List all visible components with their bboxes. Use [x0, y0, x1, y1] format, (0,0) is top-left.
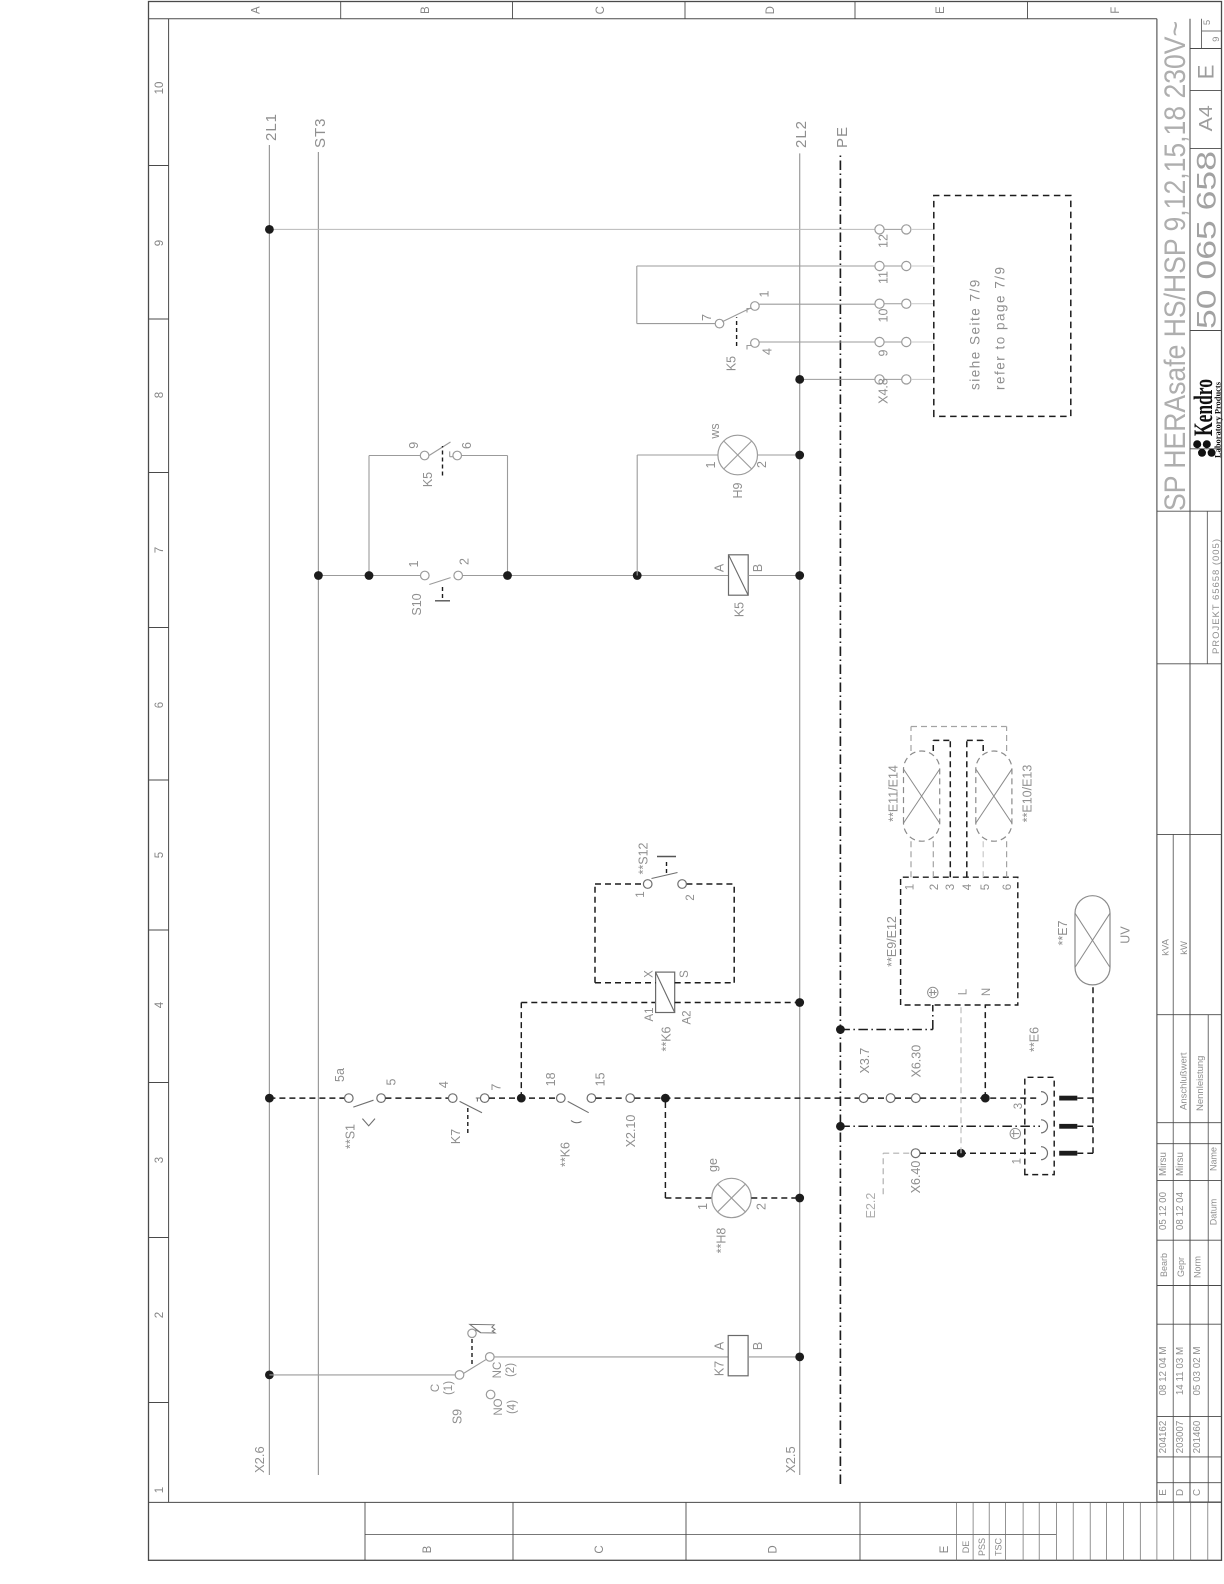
svg-text:H9: H9	[731, 482, 745, 498]
svg-text:DE: DE	[961, 1541, 971, 1554]
svg-text:50 065 658: 50 065 658	[1192, 151, 1222, 329]
svg-text:A2: A2	[682, 1010, 694, 1024]
svg-text:C: C	[595, 6, 607, 14]
svg-text:10: 10	[877, 309, 891, 323]
svg-text:S9: S9	[451, 1409, 465, 1424]
svg-text:C: C	[594, 1545, 606, 1553]
svg-text:N: N	[981, 988, 993, 996]
svg-text:X6.30: X6.30	[910, 1045, 924, 1078]
svg-text:5: 5	[1202, 20, 1213, 25]
svg-text:K7: K7	[449, 1129, 463, 1144]
svg-text:6: 6	[1002, 884, 1014, 890]
svg-text:D: D	[765, 6, 777, 14]
svg-text:(2): (2)	[505, 1363, 517, 1377]
svg-text:X6.40: X6.40	[909, 1161, 923, 1194]
svg-text:1: 1	[704, 461, 718, 468]
svg-text:14 11 03 M: 14 11 03 M	[1175, 1347, 1186, 1395]
svg-text:ST3: ST3	[312, 117, 329, 148]
svg-text:NC: NC	[492, 1362, 504, 1379]
svg-text:ge: ge	[706, 1158, 720, 1172]
svg-text:X2.5: X2.5	[783, 1446, 798, 1473]
svg-text:PE: PE	[834, 126, 851, 148]
svg-text:K5: K5	[725, 356, 739, 371]
svg-text:**H8: **H8	[715, 1228, 729, 1254]
svg-text:F: F	[1110, 7, 1122, 14]
svg-text:X: X	[644, 970, 656, 978]
svg-text:11: 11	[877, 271, 891, 284]
svg-text:E: E	[935, 6, 947, 14]
svg-text:4: 4	[962, 883, 974, 890]
svg-text:201460: 201460	[1192, 1420, 1203, 1453]
svg-text:1: 1	[905, 884, 917, 890]
svg-text:X4.8: X4.8	[877, 378, 891, 404]
svg-text:refer to page 7/9: refer to page 7/9	[993, 265, 1008, 390]
svg-text:A1: A1	[644, 1007, 656, 1021]
svg-text:**S1: **S1	[344, 1124, 358, 1149]
svg-text:**K6: **K6	[559, 1142, 573, 1167]
svg-text:E: E	[1194, 65, 1219, 80]
svg-text:kVA: kVA	[1161, 938, 1172, 955]
svg-text:7: 7	[700, 314, 714, 321]
svg-text:Bearb: Bearb	[1159, 1253, 1169, 1277]
svg-text:**S12: **S12	[637, 842, 651, 874]
svg-text:S: S	[679, 970, 691, 978]
svg-text:A: A	[251, 6, 263, 14]
svg-text:08 12 04: 08 12 04	[1175, 1191, 1186, 1230]
svg-text:K5: K5	[733, 602, 747, 617]
svg-text:Anschlußwert: Anschlußwert	[1179, 1052, 1190, 1110]
svg-text:5: 5	[154, 852, 166, 858]
svg-text:8: 8	[154, 392, 166, 398]
svg-text:(4): (4)	[507, 1400, 519, 1414]
svg-text:2: 2	[154, 1312, 166, 1318]
svg-text:1: 1	[407, 560, 421, 567]
svg-text:SP HERAsafe HS/HSP 9,12,15,: SP HERAsafe HS/HSP 9,12,15,18 230V~	[1159, 21, 1192, 511]
svg-text:D: D	[1175, 1489, 1186, 1496]
svg-text:TSC: TSC	[994, 1537, 1004, 1556]
svg-text:K7: K7	[713, 1361, 727, 1376]
svg-text:E: E	[939, 1545, 951, 1553]
svg-text:**E7: **E7	[1056, 920, 1070, 945]
svg-text:B: B	[751, 1342, 765, 1350]
svg-text:Mirsu: Mirsu	[1158, 1152, 1169, 1176]
svg-text:X2.10: X2.10	[624, 1115, 638, 1148]
svg-text:A: A	[713, 563, 727, 572]
svg-text:K5: K5	[421, 472, 435, 487]
svg-text:Nennleistung: Nennleistung	[1195, 1056, 1206, 1111]
svg-text:1: 1	[635, 891, 647, 897]
svg-text:2: 2	[458, 558, 472, 565]
svg-text:Name: Name	[1209, 1147, 1219, 1171]
svg-text:Datum: Datum	[1209, 1199, 1219, 1226]
svg-text:L: L	[958, 988, 970, 995]
svg-text:X3.7: X3.7	[858, 1048, 872, 1074]
svg-text:08 12 04 M: 08 12 04 M	[1158, 1346, 1169, 1395]
svg-text:B: B	[420, 6, 432, 14]
svg-text:ws: ws	[708, 423, 722, 439]
svg-text:kW: kW	[1179, 941, 1190, 955]
svg-text:12: 12	[877, 234, 891, 248]
svg-text:C: C	[430, 1384, 442, 1392]
svg-text:**E9/E12: **E9/E12	[885, 916, 899, 967]
svg-text:4: 4	[154, 1001, 166, 1008]
svg-text:9: 9	[154, 240, 166, 246]
svg-text:Mirsu: Mirsu	[1175, 1152, 1186, 1176]
svg-text:A4: A4	[1196, 105, 1216, 131]
svg-text:05 03 02 M: 05 03 02 M	[1192, 1346, 1203, 1395]
svg-text:5: 5	[980, 884, 992, 890]
svg-text:15: 15	[594, 1072, 608, 1086]
svg-text:S10: S10	[410, 593, 424, 615]
svg-text:4: 4	[761, 348, 775, 355]
svg-text:2: 2	[685, 894, 697, 900]
svg-text:PSS: PSS	[977, 1538, 987, 1556]
svg-text:5: 5	[385, 1079, 399, 1086]
svg-text:1: 1	[696, 1203, 710, 1210]
svg-text:2: 2	[755, 1203, 769, 1210]
svg-text:3: 3	[1013, 1103, 1025, 1109]
svg-text:5a: 5a	[333, 1068, 347, 1082]
svg-text:**K6: **K6	[660, 1026, 674, 1051]
svg-text:C: C	[1192, 1489, 1203, 1496]
svg-text:**E6: **E6	[1028, 1027, 1042, 1052]
svg-text:(1): (1)	[443, 1381, 455, 1395]
svg-text:UV: UV	[1119, 926, 1133, 944]
svg-text:10: 10	[154, 82, 166, 95]
svg-text:204162: 204162	[1158, 1421, 1169, 1454]
svg-text:9: 9	[877, 349, 891, 356]
svg-text:B: B	[422, 1545, 434, 1553]
svg-text:B: B	[751, 564, 765, 572]
svg-text:9: 9	[1211, 37, 1222, 42]
svg-text:NO: NO	[493, 1398, 505, 1415]
svg-text:1: 1	[1012, 1158, 1024, 1164]
svg-text:E: E	[1158, 1489, 1169, 1496]
svg-text:1: 1	[154, 1487, 166, 1493]
svg-text:7: 7	[154, 547, 166, 553]
svg-text:2L1: 2L1	[263, 113, 280, 141]
svg-text:1: 1	[758, 291, 772, 298]
svg-text:7: 7	[490, 1084, 504, 1091]
svg-text:**E10/E13: **E10/E13	[1021, 765, 1035, 823]
svg-text:3: 3	[154, 1157, 166, 1163]
svg-text:**E11/E14: **E11/E14	[887, 765, 901, 822]
svg-text:siehe Seite 7/9: siehe Seite 7/9	[968, 278, 983, 390]
svg-text:Laboratory Products: Laboratory Products	[1213, 381, 1223, 458]
svg-text:6: 6	[460, 442, 474, 449]
svg-text:Norm: Norm	[1193, 1256, 1203, 1278]
svg-text:05 12 00: 05 12 00	[1158, 1191, 1169, 1230]
svg-text:X2.6: X2.6	[252, 1446, 267, 1473]
svg-text:203007: 203007	[1175, 1421, 1186, 1454]
svg-text:A: A	[713, 1341, 727, 1350]
svg-text:18: 18	[544, 1072, 558, 1086]
svg-text:E2.2: E2.2	[864, 1193, 878, 1219]
svg-text:9: 9	[407, 442, 421, 449]
svg-text:6: 6	[154, 702, 166, 708]
svg-text:4: 4	[437, 1081, 451, 1088]
svg-text:3: 3	[945, 884, 957, 890]
svg-text:2: 2	[929, 884, 941, 890]
svg-text:PROJEKT 65658 (005): PROJEKT 65658 (005)	[1211, 539, 1222, 654]
svg-text:2: 2	[755, 461, 769, 468]
svg-text:Gepr: Gepr	[1176, 1257, 1186, 1277]
svg-text:2L2: 2L2	[793, 120, 810, 148]
svg-text:D: D	[768, 1545, 780, 1553]
